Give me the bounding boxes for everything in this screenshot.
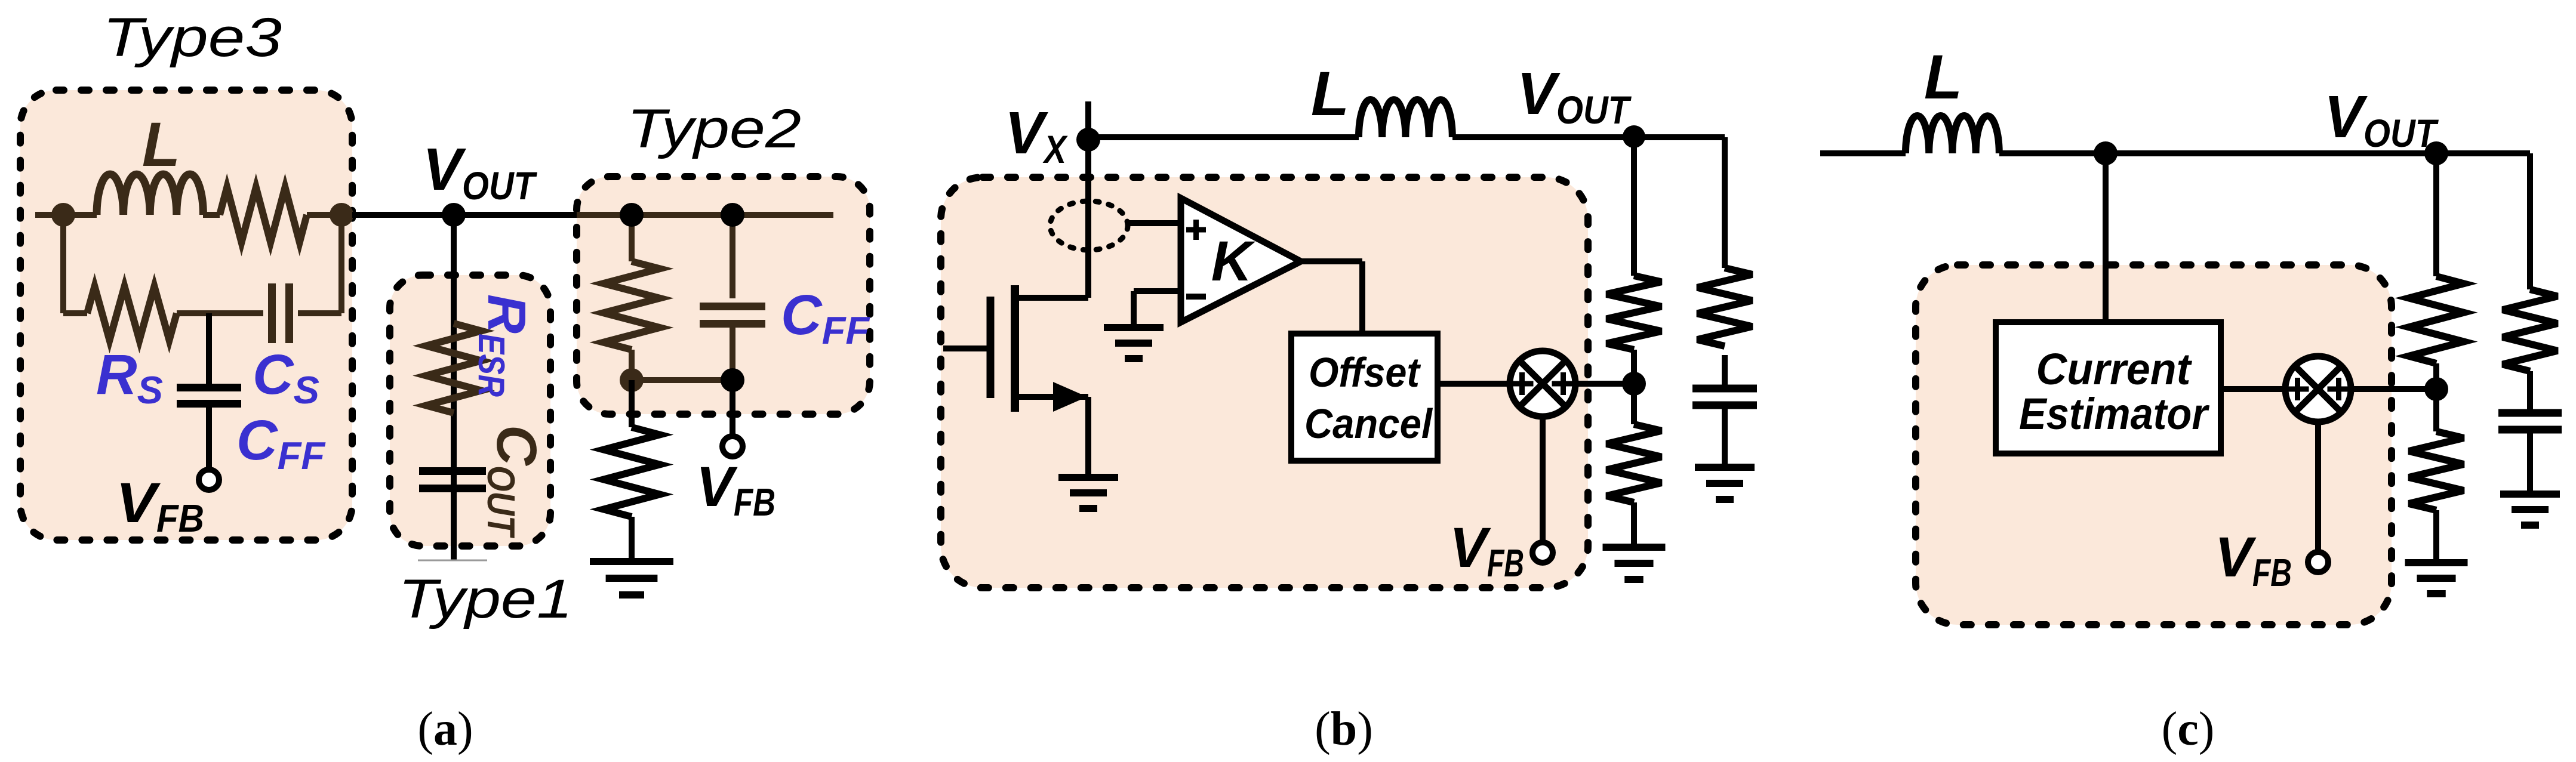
block Offset Cancel bbox=[1291, 334, 1438, 461]
wire bbox=[1631, 384, 1637, 424]
resistor R2 (b) bbox=[1606, 424, 1661, 502]
node tap (c) bbox=[2424, 377, 2448, 401]
resistor (Type2 upper) bbox=[604, 261, 660, 350]
wire: summer to VFB (c) bbox=[2315, 422, 2321, 550]
wire: VX down through sense point bbox=[1085, 140, 1091, 298]
transistor M1 gate bar bbox=[987, 297, 995, 398]
svg-text:VX: VX bbox=[1005, 100, 1068, 171]
svg-text:Current: Current bbox=[2036, 344, 2193, 394]
wire bbox=[730, 324, 735, 380]
wire: sense to op-amp + bbox=[1126, 220, 1181, 226]
resistor R1 (c) bbox=[2409, 276, 2464, 363]
svg-text:L: L bbox=[1924, 42, 1962, 112]
wire: Type2 left leg bbox=[629, 215, 635, 261]
wire bbox=[177, 310, 263, 316]
wire bbox=[1359, 261, 1365, 334]
wire: sense down bbox=[2103, 153, 2109, 322]
node (Type2 top-right) bbox=[721, 203, 744, 227]
ground (a) bbox=[590, 558, 673, 565]
gnd stub line (Type1) bbox=[418, 560, 487, 562]
block Current Estimator bbox=[1996, 322, 2221, 454]
node VOUT (b) bbox=[1623, 125, 1645, 148]
wire: down to Type1 bbox=[451, 215, 457, 560]
wire bbox=[2527, 430, 2533, 494]
svg-text:VOUT: VOUT bbox=[1517, 60, 1632, 132]
transistor M1 drain lead bbox=[1015, 295, 1088, 301]
svg-text:VFB: VFB bbox=[696, 455, 775, 524]
wire: Type2 top rail bbox=[577, 212, 833, 218]
terminal VFB (b) bbox=[1532, 542, 1553, 563]
wire: source to ground bbox=[1085, 397, 1091, 477]
resistor RESR bbox=[426, 323, 481, 413]
wire bbox=[1631, 350, 1637, 384]
ground (RC b) bbox=[1695, 464, 1755, 471]
capacitor CFF (Type3) bbox=[177, 384, 241, 391]
plus sign (op-amp) bbox=[1186, 227, 1206, 233]
inductor L (c) bbox=[1906, 116, 1999, 153]
svg-text:VOUT: VOUT bbox=[2324, 84, 2439, 155]
node sense (c) bbox=[2094, 141, 2118, 165]
label COUT bbox=[479, 425, 548, 539]
node (Type2 bottom-left) bbox=[620, 368, 644, 392]
wire bbox=[203, 212, 220, 218]
wire: VOUT to RC branch bbox=[1634, 134, 1725, 140]
terminal VFB (Type3) bbox=[199, 470, 219, 490]
Type2 compensation box bbox=[577, 177, 870, 414]
controller box (c) bbox=[1916, 265, 2392, 625]
resistor RC (c) bbox=[2503, 289, 2557, 371]
wire bbox=[629, 350, 635, 380]
svg-text:(c): (c) bbox=[2162, 703, 2215, 755]
ground (RC c) bbox=[2500, 490, 2560, 498]
wire: summer to tap (c) bbox=[2351, 386, 2436, 392]
svg-text:L: L bbox=[142, 110, 180, 180]
capacitor (RC c) bbox=[2498, 409, 2562, 417]
terminal VFB (a) bbox=[722, 436, 743, 456]
wire bbox=[206, 404, 212, 468]
ground (divider c) bbox=[2405, 559, 2468, 566]
wire: bottom tie bbox=[632, 377, 733, 383]
resistor RS bbox=[87, 286, 177, 340]
wire bbox=[1131, 291, 1137, 328]
svg-text:(b): (b) bbox=[1315, 703, 1373, 755]
Type3 compensation box bbox=[20, 90, 352, 540]
transistor M1 source arrow bbox=[1053, 382, 1087, 412]
wire: op-amp output bbox=[1301, 258, 1362, 264]
node (Type3 right) bbox=[330, 203, 353, 227]
svg-text:L: L bbox=[1311, 59, 1349, 129]
node VOUT (c) bbox=[2424, 141, 2448, 165]
wire bbox=[2433, 389, 2439, 431]
wire bbox=[2527, 371, 2533, 413]
inductor L (Type3) bbox=[97, 174, 203, 215]
wire bbox=[298, 310, 341, 316]
node VOUT (a) bbox=[442, 203, 466, 227]
wire: inductor to VOUT (c) bbox=[1999, 150, 2530, 156]
wire: summer to VFB bbox=[1540, 417, 1546, 541]
ground (M1) bbox=[1058, 474, 1118, 481]
wire: CFF branch bbox=[206, 313, 212, 387]
wire: divider upper leg bbox=[1631, 137, 1637, 276]
svg-text:Offset: Offset bbox=[1309, 349, 1421, 396]
sense ellipse bbox=[1050, 201, 1128, 250]
wire: VX stub up bbox=[1085, 101, 1091, 140]
resistor RC (b) bbox=[1697, 268, 1752, 346]
terminal VFB (c) bbox=[2308, 552, 2328, 572]
resistor R2 (c) bbox=[2409, 431, 2464, 510]
svg-text:Estimator: Estimator bbox=[2019, 389, 2210, 439]
ground (op-amp) bbox=[1104, 324, 1164, 331]
wire: left branch down bbox=[60, 215, 66, 313]
label RESR bbox=[470, 294, 536, 397]
transistor M1 channel bar bbox=[1011, 285, 1019, 412]
capacitor COUT bbox=[419, 467, 486, 475]
svg-text:VOUT: VOUT bbox=[423, 136, 537, 208]
svg-text:Type2: Type2 bbox=[627, 98, 801, 159]
wire bbox=[1722, 405, 1728, 467]
op-amp K bbox=[1181, 198, 1301, 322]
transistor M1 gate lead bbox=[943, 345, 990, 351]
wire bbox=[1722, 355, 1728, 388]
resistor R1 (b) bbox=[1606, 276, 1661, 350]
wire: estimator to summer bbox=[2221, 386, 2285, 392]
wire: VOUT to RC (c) bbox=[2527, 153, 2533, 289]
node VX bbox=[1076, 128, 1100, 152]
wire bbox=[1631, 502, 1637, 547]
svg-text:Cancel: Cancel bbox=[1304, 400, 1433, 447]
wire: lower divider leg bbox=[629, 380, 635, 427]
wire bbox=[307, 212, 352, 218]
wire bbox=[2433, 363, 2439, 389]
wire: VOUT bus bbox=[352, 212, 577, 218]
wire bbox=[2433, 510, 2439, 563]
wire: Type2 right leg bbox=[730, 215, 735, 298]
minus sign (op-amp) bbox=[1186, 294, 1206, 300]
wire: right branch down bbox=[338, 215, 344, 313]
svg-text:(a): (a) bbox=[417, 703, 473, 755]
wire: VX to inductor bbox=[1088, 134, 1359, 140]
wire: inductor to VOUT bbox=[1452, 134, 1634, 140]
resistor (lower divider, a) bbox=[604, 427, 660, 517]
wire: VFB leg (a) bbox=[730, 380, 735, 434]
Type1 compensation box bbox=[390, 275, 550, 546]
capacitor (RC b) bbox=[1692, 385, 1757, 393]
capacitor CS bbox=[268, 283, 276, 343]
wire: summer to divider tap bbox=[1575, 381, 1634, 387]
svg-text:Type1: Type1 bbox=[398, 569, 573, 630]
resistor (series, Type3 top) bbox=[220, 187, 307, 242]
node (Type3 left) bbox=[51, 203, 75, 227]
node (Type2 top-left) bbox=[620, 203, 644, 227]
controller box (b) bbox=[941, 177, 1588, 588]
inductor L (b) bbox=[1359, 100, 1452, 137]
wire bbox=[629, 517, 635, 562]
capacitor CFF (Type2) bbox=[700, 303, 765, 310]
summer (c) bbox=[2285, 356, 2351, 422]
wire: input stub (c) bbox=[1820, 150, 1906, 156]
wire: RC branch down bbox=[1722, 137, 1728, 268]
ground (divider b) bbox=[1603, 544, 1666, 551]
wire: to summer bbox=[1438, 381, 1510, 387]
transistor M1 source lead bbox=[1015, 394, 1088, 400]
summer (b) bbox=[1510, 351, 1575, 417]
node tap (b) bbox=[1622, 372, 1646, 396]
wire: op-amp minus input bbox=[1134, 288, 1181, 294]
svg-text:Type3: Type3 bbox=[103, 7, 282, 68]
wire bbox=[63, 310, 87, 316]
svg-text:K: K bbox=[1211, 230, 1256, 293]
node (Type2 bottom-right) bbox=[721, 368, 744, 392]
wire: divider upper (c) bbox=[2433, 153, 2439, 276]
wire: Type3 upper loop bbox=[35, 212, 97, 218]
